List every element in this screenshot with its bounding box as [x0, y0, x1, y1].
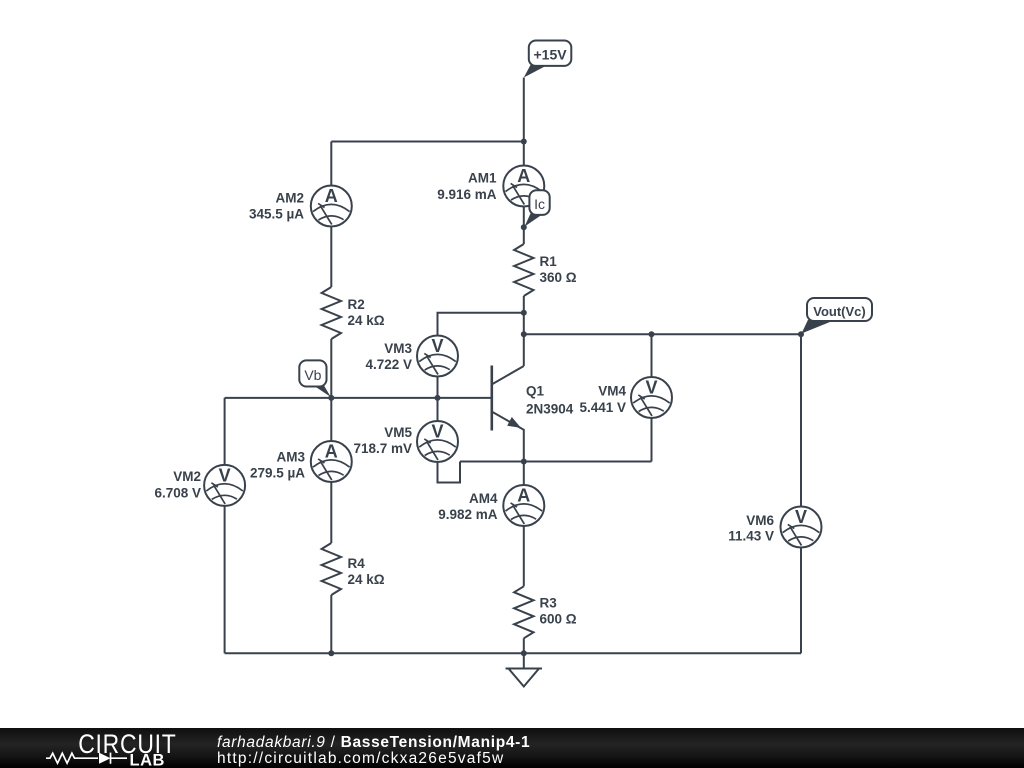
CircuitLab logo resistor-diode squiggle	[46, 752, 127, 763]
node VM4 branch on output rail	[649, 331, 655, 337]
svg-text:VM3: VM3	[384, 341, 412, 356]
svg-text:24 kΩ: 24 kΩ	[348, 572, 385, 587]
node collector output node	[521, 331, 527, 337]
resistor R3 zigzag	[514, 586, 533, 638]
svg-text:Q1: Q1	[526, 383, 545, 398]
voltmeter VM2 meter body	[204, 465, 245, 506]
svg-text:2N3904: 2N3904	[526, 401, 574, 416]
wire R2 to Vb node	[330, 339, 332, 398]
svg-text:V: V	[795, 507, 807, 527]
wire VM2 branch bottom	[224, 506, 226, 653]
voltmeter VM5 meter body	[417, 421, 458, 462]
wire VM4 bottom riser	[651, 418, 653, 462]
ammeter AM4 meter body	[503, 485, 544, 526]
node VM3/VM5 tap on base rail	[435, 395, 441, 401]
wire collector out rail	[524, 333, 801, 335]
wire AM3 to R4	[330, 482, 332, 543]
svg-text:9.982 mA: 9.982 mA	[438, 507, 498, 522]
svg-text:AM1: AM1	[468, 171, 497, 186]
wire AM4 to R3	[523, 526, 525, 586]
svg-text:345.5 µA: 345.5 µA	[249, 207, 304, 222]
svg-text:V: V	[219, 466, 231, 486]
net flag +15V supply	[524, 41, 572, 78]
node Vout corner node	[798, 331, 804, 337]
node node Vb	[328, 395, 334, 401]
svg-text:V: V	[431, 336, 443, 356]
svg-text:V: V	[645, 378, 657, 398]
svg-text:718.7 mV: 718.7 mV	[353, 441, 412, 456]
wire VM3 tap rail	[438, 313, 524, 336]
svg-text:AM4: AM4	[469, 491, 498, 506]
svg-text:AM3: AM3	[276, 449, 305, 464]
svg-text:VM2: VM2	[173, 469, 201, 484]
net flag Ic	[525, 190, 550, 226]
svg-text:600 Ω: 600 Ω	[540, 611, 577, 626]
svg-text:24 kΩ: 24 kΩ	[348, 313, 385, 328]
wire main column from +15V to AM1	[523, 78, 525, 166]
resistor R2 zigzag	[322, 287, 341, 339]
transistor Q1 2N3904	[492, 366, 524, 462]
wire base rail to VM5	[437, 398, 439, 421]
wire AM2 to R2	[330, 227, 332, 288]
net flag Vout(Vc)	[802, 298, 873, 334]
wire R1 to collector bend	[523, 296, 525, 366]
wire top rail	[331, 141, 524, 143]
svg-text:VM6: VM6	[746, 513, 774, 528]
svg-text:AM2: AM2	[275, 191, 304, 206]
wire VM4 top riser	[651, 334, 653, 377]
wire VM6 to bottom rail	[800, 548, 802, 653]
svg-text:Ic: Ic	[534, 196, 545, 212]
node ground node on bottom rail	[521, 650, 527, 656]
svg-text:6.708 V: 6.708 V	[154, 485, 201, 500]
svg-text:VM4: VM4	[598, 383, 626, 398]
wire VM2 branch top	[224, 398, 226, 465]
svg-text:farhadakbari.9 / BasseTension/: farhadakbari.9 / BasseTension/Manip4-1	[217, 733, 530, 750]
voltmeter VM6 meter body	[781, 507, 822, 548]
svg-text:5.441 V: 5.441 V	[579, 400, 626, 415]
node VM3 tap on main column	[521, 310, 527, 316]
ammeter AM3 meter body	[311, 441, 352, 482]
svg-text:Vout(Vc): Vout(Vc)	[813, 304, 865, 319]
svg-text:http://circuitlab.com/ckxa26e5: http://circuitlab.com/ckxa26e5vaf5w	[217, 750, 504, 767]
svg-text:R3: R3	[540, 595, 558, 610]
wire base rail	[225, 397, 491, 399]
ammeter AM1 meter body	[503, 166, 544, 207]
node Ic tap below AM1	[521, 224, 527, 230]
svg-text:360 Ω: 360 Ω	[540, 270, 577, 285]
svg-text:V: V	[431, 422, 443, 442]
svg-text:A: A	[517, 166, 530, 186]
wire R3 to ground node	[523, 638, 525, 653]
wire R4 to bottom rail	[330, 595, 332, 653]
svg-text:R1: R1	[540, 254, 558, 269]
resistor R1 zigzag	[514, 244, 533, 296]
voltmeter VM4 meter body	[631, 377, 672, 418]
resistor R4 zigzag	[322, 543, 341, 595]
wire VM5 bottom jog	[438, 462, 461, 483]
svg-text:9.916 mA: 9.916 mA	[437, 187, 497, 202]
svg-text:11.43 V: 11.43 V	[728, 528, 774, 543]
svg-text:LAB: LAB	[130, 751, 165, 768]
ground symbol	[506, 653, 543, 686]
svg-text:4.722 V: 4.722 V	[365, 357, 412, 372]
node top rail joins main column	[521, 139, 527, 145]
svg-text:Vb: Vb	[304, 367, 321, 383]
svg-text:A: A	[325, 442, 338, 462]
node R4 joins bottom rail	[328, 650, 334, 656]
svg-text:A: A	[517, 486, 530, 506]
wire emitter node to AM4	[523, 462, 525, 486]
svg-text:279.5 µA: 279.5 µA	[250, 465, 305, 480]
wire VM3 to base rail	[437, 377, 439, 398]
wire AM2 drop from top rail	[330, 142, 332, 186]
net flag Vb	[299, 360, 331, 397]
voltmeter VM3 meter body	[417, 336, 458, 377]
svg-text:VM5: VM5	[384, 425, 412, 440]
node emitter node	[521, 459, 527, 465]
wire AM1 to R1	[523, 207, 525, 245]
svg-text:A: A	[325, 186, 338, 206]
footer bar	[0, 728, 1024, 768]
wire Vb node to AM3	[330, 398, 332, 441]
wire bottom rail	[225, 652, 801, 654]
ammeter AM2 meter body	[311, 186, 352, 227]
wire Vout drop to VM6	[800, 334, 802, 506]
svg-text:R4: R4	[348, 556, 366, 571]
svg-text:+15V: +15V	[534, 47, 568, 63]
svg-text:R2: R2	[348, 297, 365, 312]
wire emitter rail	[460, 461, 652, 463]
